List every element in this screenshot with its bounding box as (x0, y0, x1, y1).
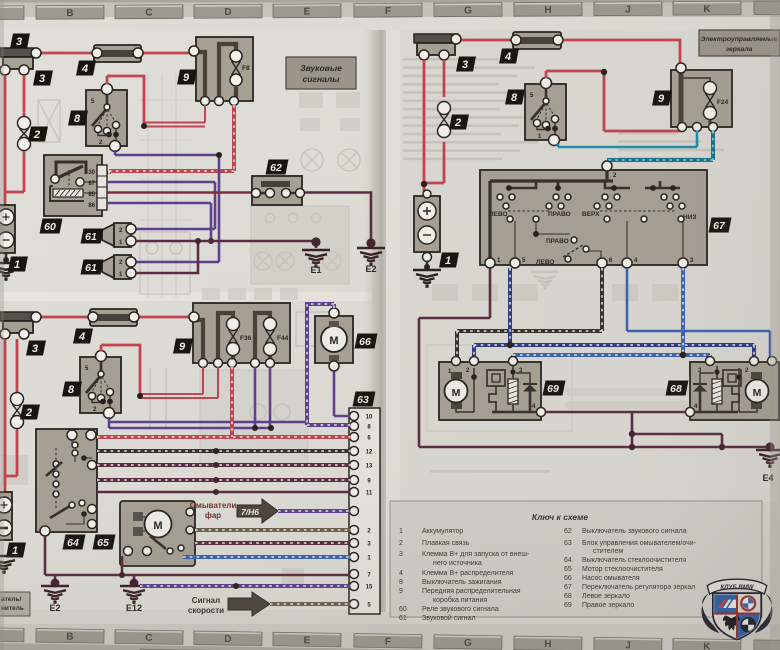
wire red battery feed horizontal (36, 52, 196, 55)
label 4 (lower) (73, 329, 93, 344)
label 2 (28, 127, 48, 142)
label 1 (right) (439, 253, 459, 268)
label 9 (right) (652, 91, 672, 106)
wire maroon/white hatched to rail pin 9 (97, 478, 350, 482)
label 8 (68, 111, 88, 126)
battery 1 (lower, clipped at page edge) (0, 492, 12, 540)
wire red battery feed horizontal (lower) (36, 316, 194, 319)
fusible link 2 (lower) (11, 393, 24, 406)
wire red ignition feed (right) (546, 71, 682, 131)
ghost connector rows, right column (432, 284, 458, 301)
label 67 (709, 218, 732, 233)
wire teal ignition-fed accessory line (558, 131, 697, 147)
terminal 4 (lower) (88, 309, 139, 326)
grid reference ribbon, top (0, 1, 780, 20)
wire purple verticals from fuses F36 F44 (255, 367, 270, 428)
wire blue/white hatched to rail pin 1 (183, 555, 350, 559)
wire maroon mirrors common to ground bus (546, 412, 722, 447)
wire olive/white hatched to rail pin 2 (195, 528, 350, 532)
wire dark purple pump to rail pin 10 (334, 371, 350, 416)
ground below battery (right) (413, 270, 441, 286)
label 9 (177, 70, 197, 85)
wire purple pair from ignition switch 8 (lower) (109, 417, 307, 428)
wiper switch 64 (36, 429, 97, 536)
pins of box 9 (lower) (189, 312, 199, 322)
label 65 (93, 535, 116, 550)
wire purple/white hatched from arrow 7/H6 to rail (278, 509, 350, 513)
ghost faded schematic, left top (38, 100, 60, 142)
wire red vertical pair to battery (right) (422, 60, 444, 194)
wire red double run to box 9 (144, 105, 205, 127)
wire maroon horn switch to ground E2 (305, 193, 371, 246)
label 64 (63, 535, 86, 550)
club crest logo watermark (702, 579, 773, 641)
ground E4 (756, 450, 780, 466)
power distribution box 9 (right) (671, 70, 732, 127)
label 3 (right) (456, 57, 476, 72)
wire maroon to rail pin 11 (97, 491, 350, 494)
page bottom edge (book below) (0, 643, 780, 650)
wire teal/navy hatched F24 to mirror switch (607, 131, 713, 166)
wire red double run to box 9 (lower) (140, 367, 218, 398)
horn switch 62 (252, 176, 305, 205)
fuse F24 (704, 82, 717, 95)
battery 1 (right) (414, 190, 440, 270)
label 1 (lower) (6, 543, 26, 558)
washer pump 66 (315, 308, 353, 371)
mirror 69 (right mirror) (439, 357, 546, 421)
horn 61 (second) (102, 255, 136, 279)
label 61 (81, 229, 104, 244)
label 60 (40, 219, 63, 234)
wire red vertical pair to battery (lower) (5, 339, 17, 492)
wire maroon/white hatched to rail pin 13 (97, 463, 350, 467)
pins of box 9 (189, 46, 199, 56)
fuse F8 (230, 50, 242, 62)
wiper motor 65 (120, 501, 195, 566)
ground E12 (120, 586, 148, 602)
wire red ignition feed (lower) (101, 345, 140, 394)
wire blue/white hatched switch pin3 to mirrors pin3 (513, 268, 710, 357)
ground E2 (lower) (41, 586, 69, 602)
label 62 (266, 160, 289, 175)
relay 60 pin rail with pins 30 87 85 86 (88, 165, 107, 210)
fuse F36 (227, 318, 240, 331)
label 68 (666, 381, 689, 396)
terminal 4 (distributor B+ terminal) (92, 45, 143, 62)
mirror adjuster switch 67 (480, 161, 707, 268)
connector 3 (right) (414, 34, 461, 60)
caption box electric mirrors (699, 30, 780, 56)
connector 3 (lower) (0, 312, 41, 339)
grid reference ribbon, bottom (0, 627, 780, 650)
label 63 (353, 392, 376, 407)
front power distribution box 9 (196, 37, 253, 101)
wire red/white twisted from F8 to relay 30 (109, 105, 234, 174)
wire purple relay 86 (107, 203, 211, 241)
fusible link 2 (right) (438, 102, 451, 115)
power distribution box 9 (lower) (193, 303, 290, 363)
wire olive/white hatched speed signal to rail pin 5 (270, 602, 350, 606)
ground E1 (302, 250, 330, 266)
wire purple/white hatched to rail pin 15 (140, 584, 350, 588)
wire blue switch pin4 to mirror 68 pin1 (627, 268, 770, 357)
horn 61 (first) (102, 223, 136, 247)
label 61 (second) (81, 260, 104, 275)
label 3 (second) (33, 71, 53, 86)
label 2 (right) (449, 115, 469, 130)
horn relay 60 (44, 155, 102, 216)
mirror 68 (left mirror) (686, 357, 780, 421)
fuse F44 (264, 318, 277, 331)
wire red/white hatched to rail pin 6 (97, 367, 350, 437)
battery 1 (0, 205, 15, 263)
label 2 (lower) (20, 405, 40, 420)
wire black/white hatched to rail pin 12 (97, 449, 350, 453)
wire purple from ignition switch through junction to horn 2 (115, 150, 219, 262)
wire dark red relay 85 to horn switch 62 (107, 191, 252, 193)
ground E2 (top section) (357, 248, 385, 264)
wire purple relay 87 feed to horn 1 (107, 182, 215, 229)
wire maroon/white hatched to rail pin 3 (195, 541, 350, 545)
terminal 4 (right) (511, 32, 563, 49)
label 3 (lower) (26, 341, 46, 356)
ghost faded schematic, left bottom (200, 370, 308, 466)
fusible link 2 (18, 117, 31, 130)
wire maroon ground run to rail pin 7 with grounds E2 E12 (45, 536, 350, 583)
horns caption box (286, 57, 356, 89)
wire black/white hatched switch pin6 to mirror 69 pin1 (457, 268, 602, 357)
ghost printed text, right column (403, 58, 498, 61)
control unit connector rail 63 (349, 408, 380, 614)
connector 3 (jump start terminal B+) (0, 48, 41, 75)
label 9 (lower) (173, 339, 193, 354)
wire navy/white hatched switch pin5 to mirrors pin2 (474, 268, 754, 357)
wire red vertical pair to battery (4, 75, 24, 205)
label 8 (lower) (62, 382, 82, 397)
ignition switch 8 (lower) (80, 351, 121, 419)
wire purple/white hatched washer feed to rail pin 8 (307, 304, 350, 425)
label 4 (right) (499, 49, 519, 64)
label 8 (right) (505, 90, 525, 105)
label 66 (355, 334, 378, 349)
label 69 (543, 381, 566, 396)
switch caption box (clipped, bottom left) (0, 592, 30, 616)
legend box (390, 501, 762, 617)
label 3 (10, 34, 30, 49)
ignition switch 8 (86, 84, 127, 152)
label 4 (76, 61, 96, 76)
label 1 (8, 257, 28, 272)
wire maroon ground from switch pin1 to E4 bus (419, 268, 770, 447)
wire red battery feed (right) (461, 40, 680, 64)
ignition switch 8 (right) (525, 78, 566, 146)
ground below battery (lower) (0, 556, 18, 572)
ground below battery (0, 263, 20, 279)
pins of box 9 (right) (676, 63, 686, 73)
wire maroon horn grounds to E1 (136, 241, 316, 273)
wire red ignition feed (107, 76, 144, 124)
rail 63 pins with numbers (350, 412, 359, 421)
